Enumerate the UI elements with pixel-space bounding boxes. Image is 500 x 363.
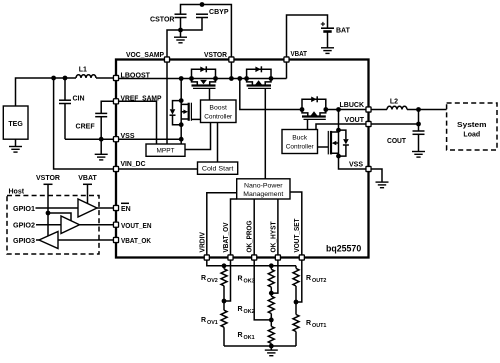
resistor R_OV1: [221, 310, 227, 327]
ground bottom network: [270, 346, 272, 350]
node ROV2 top junction: [222, 263, 227, 268]
ground right VSS: [376, 182, 389, 188]
node TEG/VIN junction: [51, 76, 56, 81]
wire Q5 source to VSS pin: [339, 156, 369, 169]
svg-text:VBAT_OV: VBAT_OV: [223, 222, 230, 252]
svg-text:Load: Load: [463, 132, 480, 139]
diode D2 body of Q2: [200, 67, 205, 73]
wire VBAT_OK pin to buffer3: [58, 239, 116, 241]
pin VREF_SAMP: [113, 99, 118, 104]
wire VSS internal row: [116, 138, 181, 140]
wire ROUT column: [295, 266, 297, 346]
svg-text:R: R: [306, 320, 311, 327]
svg-text:R: R: [201, 275, 206, 282]
svg-text:VOUT_EN: VOUT_EN: [121, 223, 152, 230]
svg-text:L2: L2: [390, 99, 398, 106]
wire VRDIV rail: [207, 258, 296, 266]
svg-text:COUT: COUT: [387, 138, 407, 145]
pin VOUT: [366, 121, 371, 126]
wire ROV column: [223, 266, 225, 346]
wire OK_PROG to ROK junction: [254, 258, 271, 320]
battery BAT: [321, 27, 334, 29]
op-amp U-buck controller box: [282, 130, 318, 154]
wire buffer2 to VOUT_EN pin: [80, 224, 117, 226]
diode D1 body of Q1: [170, 109, 176, 114]
capacitor COUT: [418, 124, 420, 131]
wire Q1 source to VSS and MPPT: [180, 125, 182, 144]
wire LBOOST internal rail: [116, 78, 287, 80]
svg-text:VBAT: VBAT: [78, 175, 97, 182]
wire Q5 gate to buck controller: [318, 146, 329, 148]
ground under CREF: [100, 139, 102, 154]
node ROUT mid junction: [294, 300, 299, 305]
wire VOUT internal row to buck controller: [316, 124, 369, 130]
svg-text:Cold Start: Cold Start: [202, 166, 234, 173]
svg-text:Host: Host: [9, 189, 25, 196]
svg-text:L1: L1: [79, 67, 87, 74]
buffer U1 GPIO1: [78, 199, 97, 217]
wire VSS row external: [65, 138, 116, 140]
svg-text:R: R: [238, 306, 243, 313]
svg-text:EN: EN: [121, 206, 131, 213]
capacitor CSTOR: [175, 14, 187, 17]
svg-text:OUT2: OUT2: [312, 278, 326, 284]
transistor Q3 VBAT switch PMOS: [247, 69, 271, 78]
diode D4 body of Q4: [311, 97, 316, 103]
pin VRDIV: [204, 255, 209, 260]
svg-text:Management: Management: [243, 191, 283, 198]
wire top rail CSTOR/CBYP to VSTOR: [181, 5, 232, 60]
capacitor CREF: [95, 113, 107, 116]
pin VSS left: [113, 137, 118, 142]
TEG source box: [3, 106, 28, 139]
svg-text:OK_PROG: OK_PROG: [247, 220, 254, 252]
resistor R_OV2: [221, 269, 227, 286]
pin VBAT_OV: [228, 255, 233, 260]
svg-text:Controller: Controller: [286, 144, 315, 151]
svg-text:VIN_DC: VIN_DC: [121, 161, 146, 168]
svg-text:OV2: OV2: [207, 278, 218, 284]
wire OK_PROG internal: [253, 199, 255, 258]
svg-text:CSTOR: CSTOR: [150, 17, 175, 24]
transistor Q4 buck high-side PMOS: [302, 99, 326, 109]
svg-text:CREF: CREF: [76, 124, 96, 131]
wire VOUT_SET internal: [290, 192, 302, 258]
wire VBAT_OV internal: [231, 199, 237, 258]
svg-text:LBUCK: LBUCK: [340, 102, 365, 109]
buffer U3 GPIO3: [39, 232, 58, 249]
svg-text:System: System: [457, 122, 487, 129]
svg-text:OK_HYST: OK_HYST: [270, 221, 277, 253]
svg-text:R: R: [238, 332, 243, 339]
op-amp U-cold-start box: [198, 162, 238, 174]
wire VSTOR pin drop: [230, 60, 232, 79]
inductor L2: [387, 106, 407, 109]
resistor R_OUT2: [293, 268, 299, 286]
wire Q3 gate to nano-power management: [264, 88, 266, 178]
svg-text:VSTOR: VSTOR: [36, 175, 60, 182]
node ROK3/ROK2 junction: [269, 291, 274, 296]
node CREF/VSS junction: [99, 137, 104, 142]
pin VOUT_SET: [299, 255, 304, 260]
wire VREF_SAMP internal to MPPT: [116, 101, 157, 144]
wire VBAT_OV to ROV junction: [224, 258, 231, 302]
capacitor CIN: [64, 78, 66, 100]
svg-text:BAT: BAT: [336, 27, 351, 34]
pin LBUCK: [366, 107, 371, 112]
wire VBAT pin to battery: [287, 15, 328, 60]
node COUT junction: [416, 122, 421, 127]
wire OK_HYST to ROK junction: [271, 258, 278, 294]
wire VBAT pin drop: [286, 60, 288, 79]
transistor Q5 buck low-side NMOS: [338, 110, 340, 157]
wire VIN_DC branch: [54, 78, 116, 169]
wire VSTOR to buck feed: [240, 79, 302, 110]
svg-text:LBOOST: LBOOST: [121, 73, 151, 80]
svg-text:Buck: Buck: [292, 135, 308, 142]
net VSTOR rail: [44, 183, 53, 185]
wire TEG to L1 row: [16, 78, 77, 106]
wire buffer1 to EN pin: [97, 207, 116, 209]
node ROV mid junction: [222, 299, 227, 304]
pin VOUT_EN: [113, 222, 118, 227]
ground under battery: [327, 33, 329, 48]
wire GPIO3 row out: [36, 239, 39, 241]
wire Q4 gate to buck controller: [307, 119, 309, 129]
wire VSS right external to ground: [369, 169, 383, 182]
svg-text:Boost: Boost: [209, 105, 227, 112]
pin VOC_SAMP: [164, 57, 169, 62]
svg-text:R: R: [306, 275, 311, 282]
svg-text:VOUT: VOUT: [345, 117, 365, 124]
svg-text:OK1: OK1: [244, 335, 255, 341]
svg-text:CIN: CIN: [73, 95, 85, 102]
diode D5 body of Q5: [343, 139, 349, 144]
wire bottom rail: [224, 345, 296, 347]
net VBAT rail: [83, 183, 92, 185]
node ground rail junction: [269, 344, 274, 349]
ground under COUT: [412, 152, 425, 158]
svg-text:OUT1: OUT1: [312, 323, 326, 329]
svg-text:CBYP: CBYP: [209, 9, 229, 16]
svg-text:bq25570: bq25570: [326, 243, 361, 253]
wire VREF_SAMP to CREF: [101, 101, 116, 113]
wire Q1 gate to boost controller: [191, 118, 200, 120]
node CSTOR bottom junction: [178, 28, 183, 33]
svg-text:VOUT_SET: VOUT_SET: [294, 218, 301, 253]
wire VOUT_SET to ROUT junction: [296, 258, 302, 303]
svg-text:VOC_SAMP: VOC_SAMP: [126, 52, 164, 59]
wire VIN_DC internal to cold start: [116, 168, 198, 170]
svg-text:VBAT: VBAT: [291, 51, 308, 58]
pin VBAT_OK: [113, 237, 118, 242]
buffer U2 GPIO2: [61, 216, 80, 234]
wire VOC_SAMP internal: [166, 60, 168, 145]
inductor L1: [76, 75, 96, 78]
op-amp U-boost controller box: [201, 100, 237, 123]
wire ROK column: [270, 266, 272, 346]
svg-text:VBAT_OK: VBAT_OK: [121, 238, 151, 245]
resistor R_OK2: [268, 296, 274, 313]
wire boost controller to cold start: [217, 123, 219, 163]
svg-text:Nano-Power: Nano-Power: [244, 183, 283, 190]
svg-text:TEG: TEG: [8, 121, 23, 128]
svg-text:MPPT: MPPT: [157, 148, 175, 155]
pin VBAT: [284, 57, 289, 62]
pin VIN_DC: [113, 166, 118, 171]
IC body bq25570: [116, 60, 369, 258]
op-amp U-nano-power management box: [237, 179, 290, 199]
node L2 output junction: [416, 107, 421, 112]
pin LBOOST: [113, 75, 118, 80]
node VSTOR branch junction: [46, 211, 51, 216]
svg-text:R: R: [238, 276, 243, 283]
wire GPIO1 row: [36, 207, 79, 209]
wire OK_HYST internal: [277, 199, 279, 258]
diode D3 body of Q3: [255, 67, 260, 73]
capacitor CBYP: [196, 14, 208, 17]
svg-text:OV1: OV1: [207, 320, 218, 326]
svg-text:GPIO2: GPIO2: [13, 223, 35, 230]
ground under CSTOR: [180, 30, 182, 37]
pin EN: [113, 205, 118, 210]
resistor R_OUT1: [293, 315, 299, 332]
wire LBUCK pin to L2: [369, 109, 388, 111]
wire L1 to LBOOST pin: [96, 77, 116, 79]
wire Q2 gate to boost controller: [209, 88, 211, 100]
transistor Q1 boost low-side NMOS: [180, 79, 182, 125]
pin OK_PROG: [252, 255, 257, 260]
wire VRDIV internal: [207, 193, 237, 258]
wire VOUT row external: [369, 110, 419, 125]
transistor Q2 boost rectifier PMOS: [192, 69, 216, 78]
svg-text:VSS: VSS: [349, 162, 363, 169]
wire GPIO2 row: [36, 224, 61, 226]
wire LBUCK internal row: [326, 109, 369, 111]
pin VSS right: [366, 166, 371, 171]
system load dashed box: [447, 103, 497, 150]
svg-text:GPIO1: GPIO1: [13, 206, 35, 213]
pin VSTOR: [229, 57, 234, 62]
wire boost controller to MPPT: [185, 123, 211, 150]
svg-text:OK2: OK2: [244, 309, 255, 315]
node CBYP top junction: [200, 2, 205, 7]
ground under TEG: [15, 139, 17, 146]
svg-text:OK3: OK3: [244, 279, 255, 285]
op-amp U-MPPT box: [146, 144, 185, 156]
pin OK_HYST: [275, 255, 280, 260]
svg-text:R: R: [201, 317, 206, 324]
resistor R_OK3: [268, 269, 274, 287]
node ROK3 top junction: [269, 263, 274, 268]
node ROK2/ROK1 junction: [269, 318, 274, 323]
host dashed box: [7, 196, 99, 255]
wire L2 to system load: [407, 109, 447, 111]
svg-text:Controller: Controller: [204, 114, 233, 121]
svg-text:GPIO3: GPIO3: [13, 238, 35, 245]
svg-text:VSS: VSS: [121, 133, 135, 140]
svg-text:VSTOR: VSTOR: [204, 52, 227, 59]
resistor R_OK1: [268, 326, 274, 343]
node CIN junction: [63, 76, 68, 81]
svg-text:VRDIV: VRDIV: [199, 232, 206, 253]
wire VOC_SAMP stub up to CSTOR bottom rail: [167, 18, 202, 60]
svg-text:VREF_SAMP: VREF_SAMP: [121, 95, 162, 102]
wire VSTOR branch to buffer2: [48, 213, 71, 221]
